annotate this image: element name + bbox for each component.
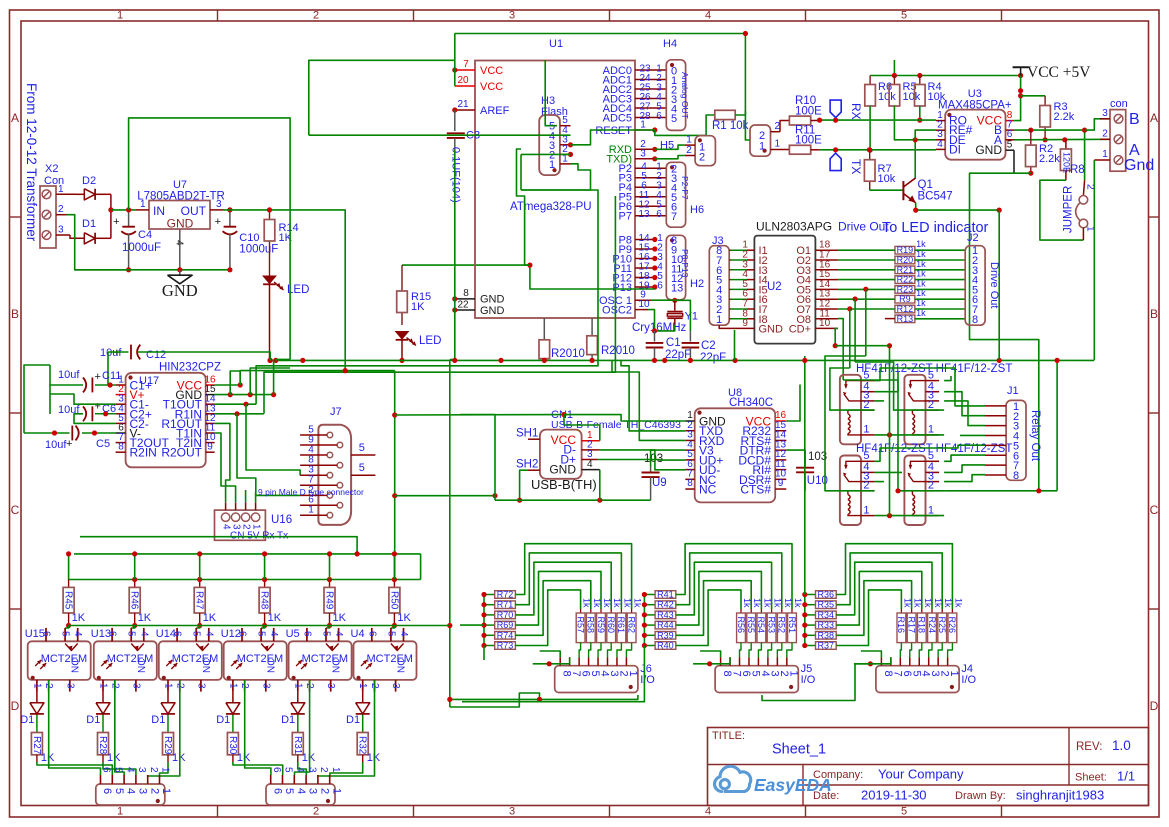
svg-text:3: 3 — [1102, 108, 1108, 119]
wire gnd drop x449.8 to header area — [449, 360, 451, 707]
wire DI line — [820, 149, 936, 151]
svg-text:5: 5 — [321, 631, 332, 637]
junction — [917, 73, 922, 78]
wire O8 tap to relay K4 coil — [843, 380, 944, 491]
junction — [392, 493, 397, 498]
svg-text:U2: U2 — [767, 281, 782, 293]
svg-text:2: 2 — [319, 788, 331, 794]
svg-text:H4: H4 — [663, 38, 677, 50]
connector header2 6pin — [266, 784, 335, 805]
svg-text:R49: R49 — [324, 591, 335, 610]
resistor R36 — [805, 594, 816, 596]
U1 pin 24 ADC1 — [635, 79, 666, 81]
svg-text:3: 3 — [509, 10, 515, 22]
svg-text:1: 1 — [117, 10, 123, 22]
svg-text:+: + — [113, 216, 119, 228]
wire second descender x615 — [264, 196, 615, 414]
svg-text:2: 2 — [863, 399, 869, 411]
svg-text:Gnd: Gnd — [1124, 157, 1154, 174]
svg-text:2: 2 — [699, 152, 705, 164]
junction — [652, 265, 657, 270]
svg-text:+: + — [215, 216, 221, 228]
svg-text:5: 5 — [113, 767, 124, 773]
wire array to header — [919, 643, 922, 658]
wire B line — [1014, 130, 1085, 180]
svg-text:1: 1 — [227, 683, 238, 689]
svg-text:B: B — [1129, 111, 1140, 128]
svg-text:TITLE:: TITLE: — [712, 730, 745, 742]
U1 pin 1 RESET — [635, 129, 655, 131]
ruler tick — [413, 10, 415, 21]
svg-text:6: 6 — [656, 209, 662, 220]
svg-text:P8-P13: P8-P13 — [680, 249, 690, 278]
U2 pin 13 O6 — [815, 298, 838, 300]
svg-text:R25: R25 — [937, 617, 947, 634]
svg-text:C2: C2 — [701, 340, 716, 352]
U1 pin 7 VCC — [455, 69, 475, 71]
junction — [271, 392, 276, 397]
wire — [915, 279, 965, 281]
U2 pin 8 I8 — [729, 318, 747, 320]
svg-text:2: 2 — [313, 10, 319, 22]
svg-text:5: 5 — [283, 788, 295, 794]
svg-text:6: 6 — [107, 631, 118, 637]
svg-text:1: 1 — [549, 159, 555, 171]
svg-text:4: 4 — [138, 631, 149, 637]
connector H6 P2-P7 — [666, 162, 685, 227]
junction — [177, 267, 182, 272]
svg-text:D1: D1 — [216, 714, 230, 726]
wire array to header — [626, 643, 631, 658]
junction — [66, 623, 71, 628]
U1 pin 6 P4 — [635, 186, 666, 188]
svg-text:1k: 1k — [592, 598, 602, 608]
resistor R43 — [644, 614, 655, 616]
svg-text:6: 6 — [271, 767, 282, 773]
resistor R21 — [895, 266, 915, 274]
svg-text:1k: 1k — [622, 598, 632, 608]
U17 pin 12 R1OUT — [206, 422, 215, 424]
svg-text:1k: 1k — [953, 598, 963, 608]
wire D+ to UD+ — [598, 459, 686, 462]
wire staircase — [515, 581, 590, 636]
U2 pin 17 O2 — [815, 259, 838, 261]
resistor R29 1K — [167, 715, 169, 733]
svg-text:5: 5 — [359, 462, 365, 474]
junction — [399, 358, 404, 363]
wire W2 rail — [270, 359, 1094, 361]
junction — [917, 118, 922, 123]
junction — [262, 551, 267, 556]
svg-text:9: 9 — [207, 442, 213, 453]
svg-text:R19: R19 — [897, 245, 914, 255]
svg-text:6: 6 — [237, 631, 248, 637]
wire — [838, 269, 895, 271]
resistor R45 1K — [68, 580, 70, 588]
U8 pin 3 RXD — [685, 439, 694, 441]
wire rail join right — [420, 554, 422, 580]
junction — [1055, 358, 1060, 363]
svg-text:10: 10 — [638, 299, 650, 310]
svg-text:1: 1 — [759, 141, 765, 153]
svg-text:REV:: REV: — [1076, 741, 1102, 753]
svg-text:C12: C12 — [146, 349, 166, 361]
junction — [642, 633, 647, 638]
svg-text:5: 5 — [1007, 140, 1013, 151]
svg-text:5: 5 — [113, 788, 125, 794]
svg-text:1: 1 — [948, 671, 960, 677]
resistor R14 — [269, 210, 271, 220]
junction — [234, 411, 239, 416]
wire CD+ to relay coil common — [835, 345, 889, 347]
junction — [688, 358, 693, 363]
svg-text:U16: U16 — [271, 514, 292, 526]
wire array to header — [768, 643, 772, 658]
svg-text:J2: J2 — [967, 232, 979, 244]
svg-text:4: 4 — [72, 631, 83, 637]
junction — [1082, 128, 1087, 133]
svg-text:4: 4 — [295, 788, 307, 794]
svg-text:3: 3 — [325, 683, 336, 689]
junction — [997, 208, 1002, 213]
svg-text:NC: NC — [699, 483, 717, 497]
svg-text:4: 4 — [398, 631, 409, 637]
svg-text:P7: P7 — [619, 211, 632, 223]
U17 pin 16 VCC — [206, 384, 215, 386]
wire array to header — [740, 643, 741, 658]
junction — [527, 263, 532, 268]
svg-text:VCC +5V: VCC +5V — [1027, 64, 1091, 81]
svg-text:R2010: R2010 — [601, 345, 635, 357]
svg-text:1K: 1K — [203, 612, 217, 624]
resistor R13 — [895, 315, 915, 323]
svg-text:20: 20 — [457, 75, 469, 86]
svg-text:JUMPER: JUMPER — [1063, 186, 1075, 233]
wire — [915, 298, 965, 300]
junction — [327, 577, 332, 582]
U1 pin 8 GND — [455, 298, 475, 300]
svg-text:5: 5 — [359, 442, 365, 454]
EasyEDA logo — [715, 766, 832, 795]
svg-text:Sheet_1: Sheet_1 — [772, 742, 826, 758]
wire OSC2 down — [648, 310, 655, 331]
U8 pin 7 NC — [685, 478, 694, 480]
svg-text:6: 6 — [301, 631, 312, 637]
svg-text:con: con — [1110, 98, 1128, 110]
wire U9 to V3 — [651, 450, 686, 466]
svg-text:3: 3 — [231, 524, 242, 530]
junction — [863, 287, 868, 292]
svg-text:R52: R52 — [777, 617, 787, 634]
wire usb gnd rail — [495, 499, 651, 501]
svg-text:1: 1 — [627, 671, 639, 677]
wire R bottom to header1 — [160, 762, 169, 775]
junction — [327, 551, 332, 556]
junction — [355, 551, 360, 556]
svg-text:1: 1 — [98, 683, 109, 689]
junction — [590, 358, 595, 363]
svg-text:Relay Out: Relay Out — [1029, 410, 1041, 462]
resistor R50 1K — [393, 580, 395, 588]
wire array to header — [777, 643, 781, 658]
svg-text:2019-11-30: 2019-11-30 — [861, 788, 927, 803]
junction — [1018, 93, 1023, 98]
svg-text:Analog OUT: Analog OUT — [680, 72, 690, 119]
U8 pin 5 UD+ — [685, 459, 694, 461]
wire R3 top — [1021, 95, 1046, 97]
wire 5V loop up and over — [129, 118, 291, 360]
wire T1IN right — [215, 433, 236, 503]
svg-text:1K: 1K — [72, 612, 86, 624]
wire — [111, 209, 136, 211]
wire U8 VCC up — [786, 385, 800, 422]
svg-text:8: 8 — [118, 442, 124, 453]
svg-text:2.2k: 2.2k — [1054, 111, 1075, 123]
wire array to header — [938, 643, 942, 658]
resistor R33 — [805, 624, 816, 626]
junction — [108, 382, 113, 387]
svg-text:4: 4 — [221, 524, 232, 530]
wire — [838, 288, 895, 290]
junction — [868, 148, 873, 153]
svg-text:R69: R69 — [497, 620, 514, 630]
svg-text:D: D — [1150, 699, 1159, 713]
wire staircase — [676, 581, 751, 636]
U2 pin 5 I5 — [729, 288, 747, 290]
svg-text:1: 1 — [292, 683, 303, 689]
wire RXD to H5 — [655, 145, 685, 149]
U1 pin 15 P9 — [635, 248, 655, 250]
svg-text:3: 3 — [640, 148, 646, 159]
junction — [132, 577, 137, 582]
wire staircase — [515, 571, 601, 625]
svg-text:4: 4 — [333, 631, 344, 637]
wire — [838, 308, 895, 310]
capacitor C1 22pF — [654, 331, 656, 342]
svg-text:R44: R44 — [657, 620, 674, 630]
wire rail feeder from U16 area — [80, 537, 357, 554]
wire B to con — [1085, 119, 1110, 130]
junction — [273, 358, 278, 363]
wire rail to rail at resistor — [68, 554, 70, 580]
svg-text:10k: 10k — [878, 91, 896, 103]
junction — [672, 298, 677, 303]
svg-text:R59: R59 — [596, 617, 606, 634]
svg-text:+: + — [95, 401, 101, 413]
svg-text:1k: 1k — [783, 598, 793, 608]
junction — [447, 697, 452, 702]
junction — [481, 612, 486, 617]
J3 pin 8 wire — [729, 318, 730, 320]
wire R1OUT right — [215, 423, 230, 502]
wire feed column — [643, 595, 645, 646]
svg-text:R37: R37 — [818, 641, 835, 651]
wire array to header — [579, 643, 580, 658]
svg-text:2.2k: 2.2k — [1039, 153, 1060, 165]
connector header1 6pin — [96, 784, 165, 805]
power flag VCC +5V — [1013, 66, 1029, 68]
wire emitter rail to relay area — [998, 210, 1000, 360]
svg-text:2: 2 — [313, 806, 319, 818]
svg-text:1K: 1K — [268, 612, 282, 624]
svg-text:9: 9 — [742, 318, 748, 329]
svg-text:1: 1 — [787, 671, 799, 677]
svg-text:1/1: 1/1 — [1117, 769, 1135, 784]
junction — [892, 73, 897, 78]
junction — [126, 207, 131, 212]
svg-text:10k: 10k — [903, 91, 921, 103]
J3 pin 7 wire — [729, 308, 730, 310]
wire pin2 to header1 — [49, 680, 101, 775]
wire resistor to pin5 — [65, 626, 69, 629]
svg-text:R20: R20 — [897, 255, 914, 265]
svg-text:AREF: AREF — [480, 105, 510, 117]
U16 pin 4 — [221, 513, 229, 521]
junction — [895, 488, 900, 493]
junction — [103, 411, 108, 416]
svg-text:6: 6 — [366, 631, 377, 637]
svg-text:R50: R50 — [388, 591, 399, 610]
svg-text:1000uF: 1000uF — [239, 244, 278, 256]
svg-text:GND: GND — [549, 463, 576, 477]
svg-text:GND: GND — [162, 281, 198, 300]
svg-text:R2OUT: R2OUT — [161, 446, 202, 460]
U1 pin 19 P13 — [635, 286, 655, 288]
resistor R44 — [644, 624, 655, 626]
svg-text:HIN232CPZ: HIN232CPZ — [159, 362, 221, 374]
junction — [228, 392, 233, 397]
J7 pin 9 — [337, 442, 343, 448]
wire taps below U2 — [865, 289, 867, 356]
wire GND vertical — [450, 150, 455, 360]
U1 pin 13 P7 — [635, 215, 666, 217]
svg-text:NC: NC — [332, 659, 343, 673]
U1 pin 18 P12 — [635, 277, 655, 279]
svg-text:GND: GND — [975, 143, 1002, 157]
U1 pin 12 P6 — [635, 205, 666, 207]
svg-text:8: 8 — [972, 314, 978, 326]
junction — [392, 623, 397, 628]
wire CD+ down — [835, 328, 838, 345]
U1 pin 2 RXD — [635, 148, 655, 150]
svg-text:5: 5 — [60, 631, 71, 637]
junction — [262, 623, 267, 628]
wire TXD left and up — [621, 360, 685, 431]
svg-text:D: D — [11, 699, 20, 713]
U1 pin 17 P11 — [635, 267, 655, 269]
junction — [802, 643, 807, 648]
wire R8 bottom to jumper pin1 — [1040, 180, 1084, 240]
svg-text:R33: R33 — [818, 620, 835, 630]
J3 pin 9 wire — [719, 325, 730, 328]
wire H3 pin4 long left — [309, 134, 571, 136]
svg-text:6: 6 — [101, 767, 112, 773]
svg-text:R36: R36 — [818, 590, 835, 600]
wire — [915, 269, 965, 271]
capacitor C10 — [229, 210, 231, 226]
wire staircase — [515, 553, 621, 609]
resistor R69 — [484, 624, 495, 626]
wire — [915, 249, 965, 251]
U1 pin 26 ADC3 — [635, 98, 666, 100]
svg-text:I/O: I/O — [801, 674, 816, 686]
svg-text:1: 1 — [31, 683, 42, 689]
wire relay K4 coil row to gnd drops — [944, 490, 1057, 492]
junction — [452, 307, 457, 312]
wire — [269, 285, 271, 361]
junction — [267, 207, 272, 212]
wire VCC down to U3 pin8 — [1014, 76, 1021, 121]
svg-text:R51: R51 — [787, 617, 797, 634]
wire T2IN T2OUT stubs — [245, 490, 247, 503]
U1 pin 3 TXD — [635, 158, 655, 160]
svg-text:3: 3 — [136, 767, 147, 773]
resistor R7 — [869, 150, 871, 160]
wire — [915, 308, 965, 310]
svg-text:Q1: Q1 — [918, 179, 933, 191]
svg-text:1k: 1k — [752, 598, 762, 608]
svg-text:H6: H6 — [690, 204, 704, 216]
title block — [708, 728, 1149, 806]
svg-text:1: 1 — [1102, 149, 1108, 160]
svg-text:I/O: I/O — [640, 674, 655, 686]
junction — [561, 412, 566, 417]
svg-text:7: 7 — [463, 59, 469, 70]
svg-text:2: 2 — [148, 767, 159, 773]
capacitor C2 22pF — [689, 331, 691, 341]
svg-text:9: 9 — [778, 478, 784, 489]
wire coil common vertical — [889, 346, 891, 516]
svg-text:R34: R34 — [818, 610, 835, 620]
svg-text:B: B — [1150, 307, 1158, 321]
junction — [913, 208, 918, 213]
svg-text:1k: 1k — [793, 598, 803, 608]
CN1 pin 1 — [582, 440, 600, 442]
wire pin2 to header1 — [148, 680, 180, 776]
U1 pin 14 P8 — [635, 239, 655, 241]
wire C11 left — [50, 385, 83, 414]
U17 pin 11 T1IN — [206, 432, 215, 434]
junction — [517, 498, 522, 503]
wire array to header — [948, 643, 953, 658]
svg-text:4: 4 — [937, 139, 943, 150]
U2 pin 7 I7 — [729, 308, 747, 310]
junction — [833, 147, 838, 152]
ruler tick — [10, 608, 22, 610]
wire staircase — [515, 590, 580, 646]
wire — [838, 279, 895, 281]
wire staircase — [676, 553, 782, 609]
junction — [802, 358, 807, 363]
svg-text:R74: R74 — [497, 630, 514, 640]
svg-text:ULN2803APG: ULN2803APG — [756, 220, 832, 234]
wire staircase — [676, 562, 772, 615]
LED LED1 — [263, 276, 276, 284]
resistor R41 — [644, 594, 655, 596]
svg-text:1: 1 — [357, 683, 368, 689]
svg-text:I/O: I/O — [961, 674, 976, 686]
U1 pin 22 GND — [455, 309, 475, 311]
svg-text:D1: D1 — [346, 714, 360, 726]
svg-text:CTS#: CTS# — [740, 483, 771, 497]
wire J3 down-left — [734, 330, 736, 360]
J3 pin 3 wire — [729, 269, 730, 271]
ruler tick — [805, 10, 807, 21]
resistor R19 — [895, 246, 915, 254]
svg-text:1: 1 — [117, 806, 123, 818]
J1 pin 8 wire — [985, 474, 1006, 476]
J7 pin 1 — [327, 512, 333, 518]
